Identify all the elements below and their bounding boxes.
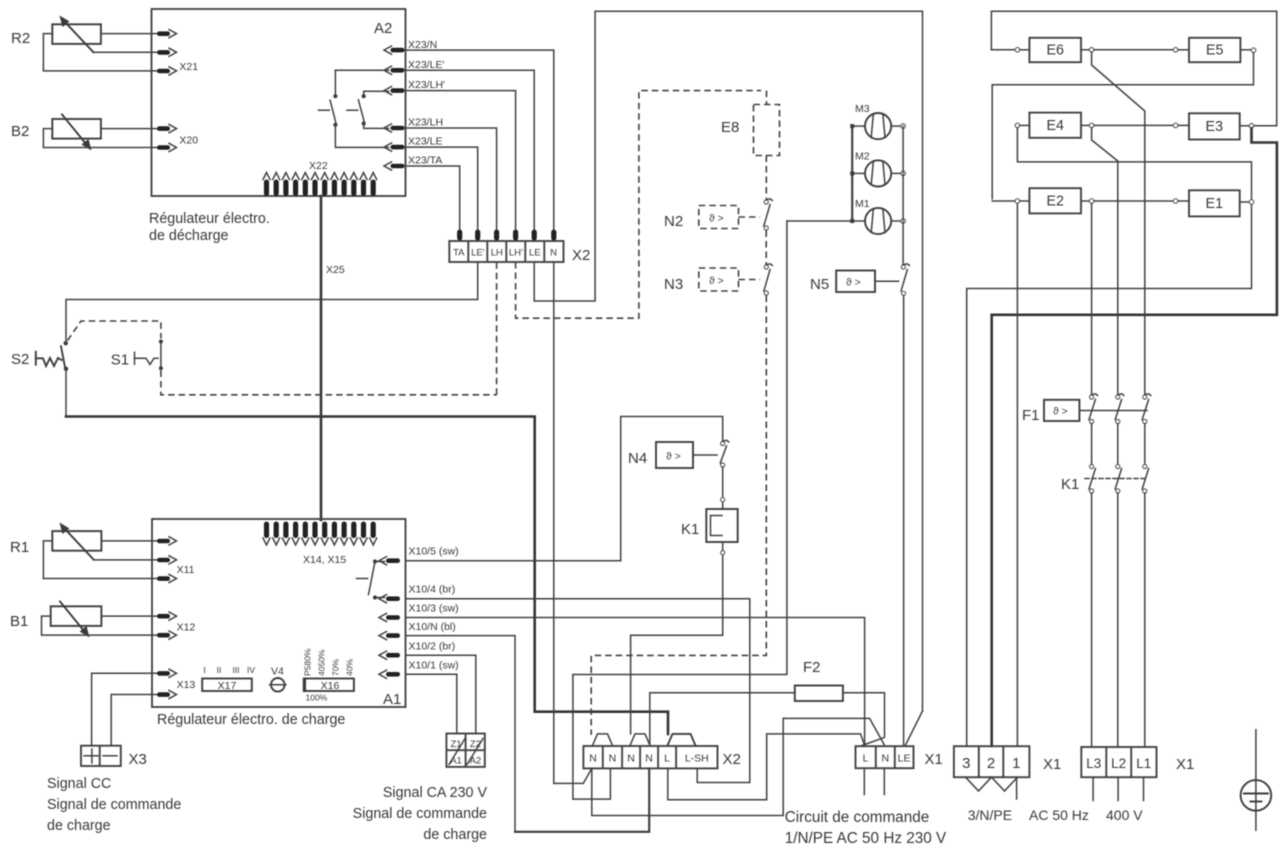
heater E1 — [1173, 190, 1253, 216]
pin X10/1 — [379, 660, 459, 679]
wire X10/N to X2:N4 — [406, 636, 515, 832]
wire X10/5 to N4 contact — [406, 417, 723, 561]
dashed wire N2 to N3 — [765, 231, 767, 265]
dashed wire E8 to N2 — [765, 156, 767, 200]
svg-text:X10/2 (br): X10/2 (br) — [409, 641, 456, 653]
F1 contact L2 — [1115, 394, 1124, 424]
pin X23/TA — [384, 155, 442, 171]
wire N4 to K1 coil — [721, 467, 725, 509]
svg-text:E5: E5 — [1206, 43, 1224, 59]
contactor K1 contacts — [1061, 465, 1149, 494]
label Signal CC — [47, 776, 181, 834]
wire X23/N to X2:N — [406, 50, 554, 231]
svg-text:L: L — [863, 753, 869, 765]
terminal pins on X2 top — [457, 230, 556, 241]
F1 contact L3 — [1089, 394, 1098, 424]
heater E5 — [1173, 38, 1255, 62]
wire E6 to L1 phase — [1092, 52, 1145, 395]
wire E2 left to X1:1 — [1016, 203, 1018, 746]
selector X17 — [202, 665, 255, 692]
svg-text:ϑ >: ϑ > — [1053, 406, 1068, 418]
svg-text:N3: N3 — [664, 276, 683, 293]
wire E3 to top rail — [1254, 125, 1277, 127]
svg-text:X23/LE': X23/LE' — [408, 59, 444, 71]
svg-text:Signal CC: Signal CC — [47, 776, 111, 792]
svg-text:40%: 40% — [345, 659, 355, 676]
terminal block X1 supply 3 2 1 — [954, 746, 1061, 777]
terminal block X1 supply L3 L2 L1 — [1081, 747, 1194, 777]
terminal block X1 control — [856, 746, 943, 768]
F1 contact L1 — [1142, 394, 1151, 424]
svg-text:X1: X1 — [1176, 756, 1194, 773]
svg-text:E8: E8 — [721, 119, 739, 136]
connector X22 pin row — [263, 173, 377, 197]
wire X10/4 to X2:L-SH — [406, 599, 750, 783]
cable sleeve marks below X1 — [966, 777, 1018, 791]
svg-text:3/N/PE: 3/N/PE — [968, 807, 1012, 823]
svg-text:E4: E4 — [1046, 118, 1064, 134]
svg-text:Z2: Z2 — [470, 739, 481, 750]
svg-text:R1: R1 — [10, 539, 29, 556]
pin X10/4 — [379, 584, 455, 603]
svg-text:II: II — [217, 665, 222, 675]
dashed wire S2 to S1 — [68, 321, 161, 341]
svg-text:X23/N: X23/N — [408, 39, 437, 51]
cable stub below X1:L — [863, 768, 865, 794]
fuse F2 — [650, 659, 885, 746]
dashed wire N3 to X2 bottom N — [591, 296, 766, 735]
svg-text:LE: LE — [529, 248, 541, 259]
svg-text:L3: L3 — [1086, 756, 1101, 771]
fan motor M3 — [850, 103, 905, 139]
regulator A1 box — [152, 519, 406, 708]
heater E2 — [992, 188, 1094, 213]
svg-text:X20: X20 — [179, 135, 198, 147]
pin X23/LE' — [384, 59, 444, 74]
svg-text:A2: A2 — [374, 20, 392, 37]
svg-text:N: N — [645, 753, 653, 765]
connector pins X12 — [157, 612, 195, 639]
svg-text:V4: V4 — [271, 666, 284, 678]
svg-text:400 V: 400 V — [1106, 807, 1143, 823]
thermostat N3 box — [664, 268, 760, 293]
pin X10/N — [379, 621, 456, 640]
svg-text:E6: E6 — [1046, 43, 1064, 59]
svg-text:I: I — [203, 665, 205, 675]
svg-text:LE: LE — [898, 753, 911, 765]
pin X23/LE — [384, 136, 442, 152]
thermostat contact N5 — [901, 264, 909, 295]
svg-text:R2: R2 — [11, 30, 30, 47]
svg-text:LH: LH — [491, 248, 503, 259]
svg-text:X17: X17 — [218, 680, 237, 692]
svg-text:1: 1 — [1012, 755, 1020, 772]
wire B1 to X12 — [101, 615, 157, 617]
jumper bridge X2 N-N (right pair) — [630, 734, 650, 746]
svg-text:ϑ >: ϑ > — [666, 451, 681, 463]
thermostat N4 box — [628, 442, 717, 468]
svg-text:L2: L2 — [1111, 756, 1126, 771]
wire E4 to E3 — [1094, 124, 1174, 126]
svg-text:2: 2 — [987, 755, 995, 772]
svg-text:M3: M3 — [855, 103, 870, 115]
svg-text:N: N — [627, 753, 635, 765]
fan motor M2 — [850, 151, 905, 187]
wire X2:L to X1:L — [668, 734, 865, 800]
wire X23/TA to X2:TA — [406, 166, 460, 231]
svg-text:X23/LE: X23/LE — [408, 136, 442, 148]
svg-text:X1: X1 — [925, 751, 943, 768]
cable stubs below L3 L2 L1 — [1093, 777, 1143, 800]
wire top rail into X1:LE — [906, 711, 923, 745]
thick charge loop wire — [66, 417, 668, 734]
svg-text:100%: 100% — [306, 693, 328, 703]
svg-text:X25: X25 — [326, 264, 345, 276]
wire E5 to E2 chain — [992, 52, 1253, 198]
svg-text:N: N — [589, 753, 597, 765]
pin X23/LH' — [384, 79, 445, 95]
wire X2:N riser — [553, 262, 555, 783]
pin X23/N — [384, 39, 437, 54]
switch S2 — [11, 341, 68, 371]
svg-text:X3: X3 — [129, 751, 147, 768]
svg-text:de charge: de charge — [423, 827, 487, 843]
right section top rail — [991, 11, 1276, 126]
dashed wire S1 to X2:LH — [161, 371, 497, 395]
svg-text:X1: X1 — [1043, 756, 1061, 773]
heater E3 — [1173, 113, 1253, 139]
svg-text:F2: F2 — [803, 659, 821, 676]
pin X10/2 — [379, 641, 455, 660]
svg-text:E2: E2 — [1046, 194, 1064, 210]
protective earth symbol — [1241, 730, 1272, 831]
wire E2 to L3 phase — [1091, 203, 1093, 394]
svg-text:B2: B2 — [11, 123, 29, 140]
wire X23/LH to X2:LH — [406, 128, 497, 231]
wire E2 to E1 — [1094, 200, 1174, 202]
wire X2:N1 bottom hook to N wire — [554, 768, 592, 783]
thermostat contact N4 — [720, 440, 728, 467]
svg-text:TA: TA — [453, 248, 465, 259]
connector pins X11 — [157, 537, 195, 583]
wire N5 to X1:LE — [903, 296, 905, 745]
svg-text:A2: A2 — [470, 756, 482, 767]
svg-text:X21: X21 — [179, 61, 198, 73]
pin X10/5 — [379, 546, 459, 565]
svg-text:X10/N (bl): X10/N (bl) — [409, 621, 456, 633]
svg-text:M2: M2 — [855, 151, 870, 163]
internal changeover switch A1 — [357, 559, 385, 599]
relay coil K1 — [681, 509, 738, 542]
svg-text:P580%: P580% — [303, 648, 313, 676]
label 3/N/PE AC 50 Hz 400 V — [968, 807, 1144, 823]
label Régulateur électro. de décharge — [149, 211, 270, 244]
terminal block X2 bottom — [583, 746, 740, 768]
svg-text:X12: X12 — [177, 622, 196, 634]
svg-text:Régulateur électro. de charge: Régulateur électro. de charge — [157, 712, 345, 728]
svg-text:S2: S2 — [11, 351, 29, 368]
svg-text:X10/3 (sw): X10/3 (sw) — [409, 603, 459, 615]
svg-text:ϑ >: ϑ > — [709, 213, 724, 225]
potentiometer R2 — [11, 16, 101, 53]
svg-text:N: N — [609, 753, 617, 765]
svg-text:de charge: de charge — [47, 818, 111, 834]
pin X23/LH — [384, 117, 443, 133]
svg-text:F1: F1 — [1022, 407, 1040, 424]
wire E4 to E1 link — [1017, 128, 1251, 200]
wire X2:N1 to X1:N — [592, 718, 885, 815]
dashed wire X2:LH' to E8 loop — [516, 91, 761, 319]
svg-text:X2: X2 — [572, 247, 590, 264]
internal changeover switch S-A2a — [319, 70, 389, 147]
pin X10/3 — [379, 603, 459, 622]
svg-text:LE': LE' — [471, 248, 485, 259]
wire R1 to X11 — [101, 540, 157, 542]
wire X2:N2 to motor chain — [573, 221, 787, 799]
cable stub below X1:N — [883, 768, 885, 794]
svg-text:X23/LH: X23/LH — [408, 117, 443, 129]
wire E4 to L2 phase — [1092, 128, 1118, 395]
svg-text:B1: B1 — [10, 613, 28, 630]
wire X2:LE riser to top rail — [534, 11, 922, 711]
svg-text:X23/LH': X23/LH' — [408, 79, 445, 91]
internal changeover switch S-A2b — [347, 91, 389, 128]
terminal block X2 top — [449, 241, 590, 264]
svg-text:X11: X11 — [177, 564, 195, 576]
heater E8 dashed box — [721, 91, 780, 156]
svg-text:AC 50 Hz: AC 50 Hz — [1029, 807, 1089, 823]
svg-text:Signal CA 230 V: Signal CA 230 V — [383, 785, 488, 801]
cable stub below X1:1 — [1016, 777, 1018, 799]
switch S1 — [111, 340, 163, 371]
sensor B1 — [10, 602, 101, 638]
svg-text:LH': LH' — [509, 248, 523, 259]
svg-text:K1: K1 — [681, 521, 699, 538]
wire F2 to X2:N4 terminal — [649, 693, 651, 746]
motor right bus to N5 — [902, 126, 904, 264]
thermostat N2 box — [664, 206, 760, 231]
svg-text:X10/5 (sw): X10/5 (sw) — [409, 546, 459, 558]
wires K1 to X1 L3 L2 L1 — [1092, 493, 1145, 747]
svg-text:M1: M1 — [855, 198, 870, 210]
svg-text:Régulateur électro.: Régulateur électro. — [149, 211, 270, 227]
wire R2 to X21 — [101, 33, 157, 35]
thermostat contact N2 — [764, 199, 772, 230]
wire S2 bottom to thick loop — [65, 371, 67, 417]
svg-text:X23/TA: X23/TA — [408, 155, 442, 167]
svg-text:E3: E3 — [1206, 119, 1224, 135]
thermostat N5 box — [810, 271, 899, 294]
svg-text:70%: 70% — [331, 659, 341, 676]
svg-text:III: III — [232, 665, 239, 675]
svg-text:ϑ >: ϑ > — [709, 275, 724, 287]
svg-text:X10/1 (sw): X10/1 (sw) — [409, 660, 459, 672]
label Signal CA 230 V — [353, 785, 488, 843]
motor left bus — [851, 126, 853, 221]
thermostat contact N3 — [764, 264, 772, 295]
potentiometer R1 — [10, 523, 101, 560]
regulator A2 box — [152, 9, 406, 196]
svg-text:N: N — [882, 753, 890, 765]
svg-text:de décharge: de décharge — [149, 228, 229, 244]
LED V4 — [270, 666, 287, 692]
heater E6 — [991, 38, 1093, 62]
svg-text:A1: A1 — [450, 756, 462, 767]
svg-text:1/N/PE AC 50 Hz 230 V: 1/N/PE AC 50 Hz 230 V — [785, 830, 947, 847]
wire B2 to X20 — [101, 128, 157, 130]
svg-text:ϑ >: ϑ > — [846, 277, 861, 289]
svg-text:N4: N4 — [628, 450, 647, 467]
svg-text:X16: X16 — [321, 680, 340, 692]
wire E1 to X1:3 — [967, 204, 1252, 746]
wire X23/LH' to X2:LH' — [406, 91, 516, 231]
svg-text:IV: IV — [247, 665, 255, 675]
svg-text:X22: X22 — [309, 160, 328, 172]
wire X10/3 to X1:L — [406, 618, 865, 746]
svg-text:Z1: Z1 — [450, 739, 461, 750]
connector pins X21 — [157, 30, 198, 76]
wires F1 to K1 contacts — [1092, 424, 1145, 465]
svg-text:X14, X15: X14, X15 — [303, 554, 346, 566]
svg-text:K1: K1 — [1061, 476, 1079, 493]
wire E6 to E5 — [1094, 49, 1174, 51]
sensor B2 — [11, 115, 101, 151]
svg-text:Circuit de commande: Circuit de commande — [785, 809, 930, 826]
svg-text:L1: L1 — [1136, 756, 1151, 771]
wire X10/1 to Z1 — [406, 674, 457, 733]
thick wire E3 to X1:2 — [992, 128, 1277, 746]
svg-text:3: 3 — [962, 755, 970, 772]
svg-text:N2: N2 — [664, 213, 683, 230]
thermal cutout F1 box — [1022, 400, 1147, 424]
svg-text:N5: N5 — [810, 276, 829, 293]
svg-text:L-SH: L-SH — [685, 753, 709, 765]
wire X23/LE to X2:LE' — [406, 147, 478, 231]
svg-text:L: L — [664, 753, 670, 765]
wire X2:LE' to S2 loop top — [66, 262, 478, 341]
connector pins X13 — [157, 669, 195, 698]
svg-text:E1: E1 — [1206, 196, 1224, 212]
wire X3 to X13 — [92, 673, 157, 745]
svg-text:Signal de commande: Signal de commande — [353, 806, 487, 822]
cable X25 — [320, 196, 323, 520]
jumper bridge X2 L to L-SH — [668, 734, 696, 746]
svg-text:X2: X2 — [723, 751, 741, 768]
label Circuit de commande — [785, 809, 947, 847]
wire X10/2 to Z2 — [406, 655, 476, 733]
terminal Z1 Z2 A1 A2 — [446, 734, 484, 767]
svg-text:4050%: 4050% — [317, 649, 327, 676]
svg-text:X10/4 (br): X10/4 (br) — [409, 584, 456, 596]
fan motor M1 — [787, 198, 905, 234]
wire K1 coil to X2 N jumper — [631, 542, 725, 734]
wire X23/LE' to X2:LE — [406, 70, 535, 231]
svg-text:S1: S1 — [111, 352, 129, 369]
svg-text:A1: A1 — [383, 691, 401, 708]
selector X16 — [303, 648, 355, 702]
svg-text:X13: X13 — [177, 679, 196, 691]
heater E4 — [1015, 113, 1094, 138]
connector X14 X15 pin row — [263, 522, 377, 546]
jumper bridge X2 N-N — [593, 734, 613, 746]
connector pins X20 — [157, 124, 198, 151]
terminal X3 — [81, 746, 147, 768]
svg-text:N: N — [550, 248, 557, 259]
svg-text:Signal de commande: Signal de commande — [47, 797, 181, 813]
